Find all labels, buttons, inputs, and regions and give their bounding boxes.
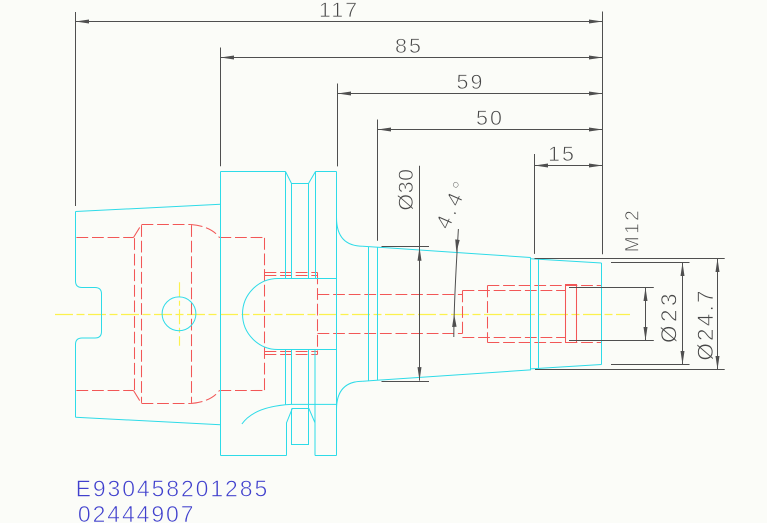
- ext line right common: [602, 12, 604, 255]
- arrow dia24.7 top: [716, 259, 720, 273]
- cavity capsule top line: [278, 278, 337, 280]
- arrow 85 left: [221, 56, 235, 60]
- ext line 15 left: [534, 154, 536, 254]
- hidden bore step vertical: [462, 291, 464, 338]
- dim line 85: [221, 57, 603, 59]
- nose bottom edge: [531, 365, 602, 369]
- arrow angle upper: [455, 239, 460, 252]
- nose top edge: [531, 259, 602, 263]
- shank taper top edge: [76, 204, 221, 211]
- arrow dia24.7 bottom: [716, 356, 720, 370]
- dia24.7 ext bottom: [535, 369, 725, 371]
- arrow angle lower: [452, 314, 457, 327]
- flange top right: [316, 171, 337, 173]
- arrow dia23 bottom: [681, 351, 685, 365]
- dim line 15: [535, 165, 603, 167]
- M12 ext bottom: [569, 340, 654, 342]
- drive slot inner wall: [292, 409, 309, 445]
- dim line 59: [338, 93, 603, 95]
- arrow 117 left: [76, 20, 90, 24]
- groove projection line 4 lower: [314, 350, 316, 456]
- cone fillet top: [337, 218, 363, 247]
- nose rear vertical: [538, 259, 540, 368]
- svg-text:M12: M12: [623, 208, 644, 252]
- cone top edge: [363, 246, 531, 257]
- dia23 dim line: [682, 263, 684, 365]
- arrow dia30 top: [418, 247, 422, 261]
- svg-text:Ø30: Ø30: [394, 168, 418, 210]
- cone face vertical 2: [377, 247, 379, 380]
- bore circle: [162, 297, 196, 331]
- cone fillet bottom: [337, 381, 363, 409]
- ext line 50 left: [377, 120, 379, 241]
- arrow 85 right: [589, 56, 603, 60]
- svg-text:02444907: 02444907: [78, 501, 196, 523]
- groove projection line 3 lower: [308, 350, 310, 409]
- dia30 tick bottom: [382, 381, 430, 383]
- hidden cavity rect top outer: [265, 272, 318, 274]
- arrow 15 right: [589, 164, 603, 168]
- cone bottom edge: [363, 370, 531, 381]
- svg-text:50: 50: [476, 106, 504, 130]
- hidden thread major top: [488, 285, 602, 287]
- hidden mid bore bottom: [463, 337, 566, 339]
- arrow 15 left: [535, 164, 549, 168]
- cavity capsule arc: [243, 279, 278, 350]
- M12 ext top: [569, 287, 654, 289]
- hidden pilot bore bottom: [318, 333, 463, 335]
- svg-text:117: 117: [319, 0, 359, 22]
- hidden pilot bore top: [318, 294, 463, 296]
- gripper V-groove: [286, 172, 316, 184]
- hidden cavity rect bottom outer: [265, 354, 318, 356]
- groove projection line 3: [308, 184, 310, 279]
- svg-text:85: 85: [395, 34, 423, 58]
- svg-text:Ø24.7: Ø24.7: [693, 288, 718, 360]
- arrow M12 top: [644, 288, 648, 302]
- arrow 50 left: [378, 128, 392, 132]
- hidden bore bottom inner line: [142, 403, 191, 405]
- centerline circle vertical (yellow): [179, 282, 181, 346]
- cavity capsule bottom line: [278, 349, 337, 351]
- hidden bore bottom line left: [76, 390, 133, 392]
- dia30 dim line: [419, 166, 421, 381]
- hidden bore top step diagonal: [134, 225, 142, 238]
- flange left edge: [220, 172, 222, 456]
- dia23 ext top: [611, 262, 690, 264]
- flange bottom edge right: [315, 455, 337, 457]
- angle leader arc: [454, 229, 459, 337]
- hidden cavity rect bottom inner: [265, 351, 318, 353]
- dim line 117: [76, 21, 603, 23]
- hidden bore face vertical 3: [191, 225, 193, 403]
- arrow dia23 top: [681, 263, 685, 277]
- svg-text:59: 59: [457, 70, 485, 94]
- hidden bore top line left: [76, 237, 133, 239]
- hidden thread major bottom: [488, 342, 602, 344]
- slot floor sweep: [242, 404, 337, 424]
- nose front face: [601, 263, 603, 365]
- ext line 117 left: [75, 12, 77, 206]
- dia23 ext bottom: [611, 364, 690, 366]
- hidden bore top curve: [191, 225, 220, 238]
- svg-text:15: 15: [548, 142, 576, 166]
- groove projection line 2 lower: [291, 350, 293, 405]
- hidden thread start vertical: [487, 286, 489, 343]
- svg-text:Ø23: Ø23: [656, 290, 681, 343]
- hidden bore bottom step diagonal: [134, 391, 142, 404]
- hidden bore top line right: [219, 237, 264, 239]
- shank back face with grip notch: [76, 212, 102, 418]
- hidden cavity face vertical: [264, 238, 266, 390]
- hidden bore bottom line right: [219, 390, 264, 392]
- dia30 tick top: [382, 246, 430, 248]
- arrow 50 right: [589, 128, 603, 132]
- dim line 50: [378, 129, 603, 131]
- hidden bore face vertical 1: [134, 238, 136, 390]
- groove projection line 1 lower: [285, 350, 287, 405]
- hidden mid bore top: [463, 290, 566, 292]
- flange top left: [221, 171, 286, 173]
- hidden bore bottom curve: [191, 391, 220, 404]
- dia24.7 ext top: [535, 258, 725, 260]
- centerline main (yellow): [55, 314, 630, 316]
- arrow 117 right: [589, 20, 603, 24]
- M12 dim line: [645, 288, 647, 341]
- hidden cavity rect right vertical: [317, 273, 319, 355]
- hidden cavity rect top inner: [265, 275, 318, 277]
- drive slot outline: [287, 409, 316, 456]
- hidden bore top inner line: [142, 224, 191, 226]
- hidden thread end rectangle: [566, 285, 577, 343]
- ext line 85 left: [220, 48, 222, 167]
- dia24.7 dim line: [717, 259, 719, 370]
- groove projection line 1: [285, 172, 287, 279]
- flange right edge: [336, 172, 338, 456]
- svg-text:E930458201285: E930458201285: [76, 475, 270, 501]
- cone face vertical 1: [368, 247, 370, 381]
- arrow M12 bottom: [644, 327, 648, 341]
- hidden bore face vertical 2: [141, 225, 143, 403]
- groove projection line 4: [315, 172, 317, 279]
- shank taper bottom edge: [76, 417, 221, 425]
- ext line 59 left: [337, 84, 339, 167]
- arrow 59 right: [589, 92, 603, 96]
- cone end vertical: [530, 257, 532, 370]
- groove projection line 2: [291, 184, 293, 279]
- arrow dia30 bottom: [418, 367, 422, 381]
- arrow 59 left: [338, 92, 352, 96]
- flange bottom edge left: [221, 455, 287, 457]
